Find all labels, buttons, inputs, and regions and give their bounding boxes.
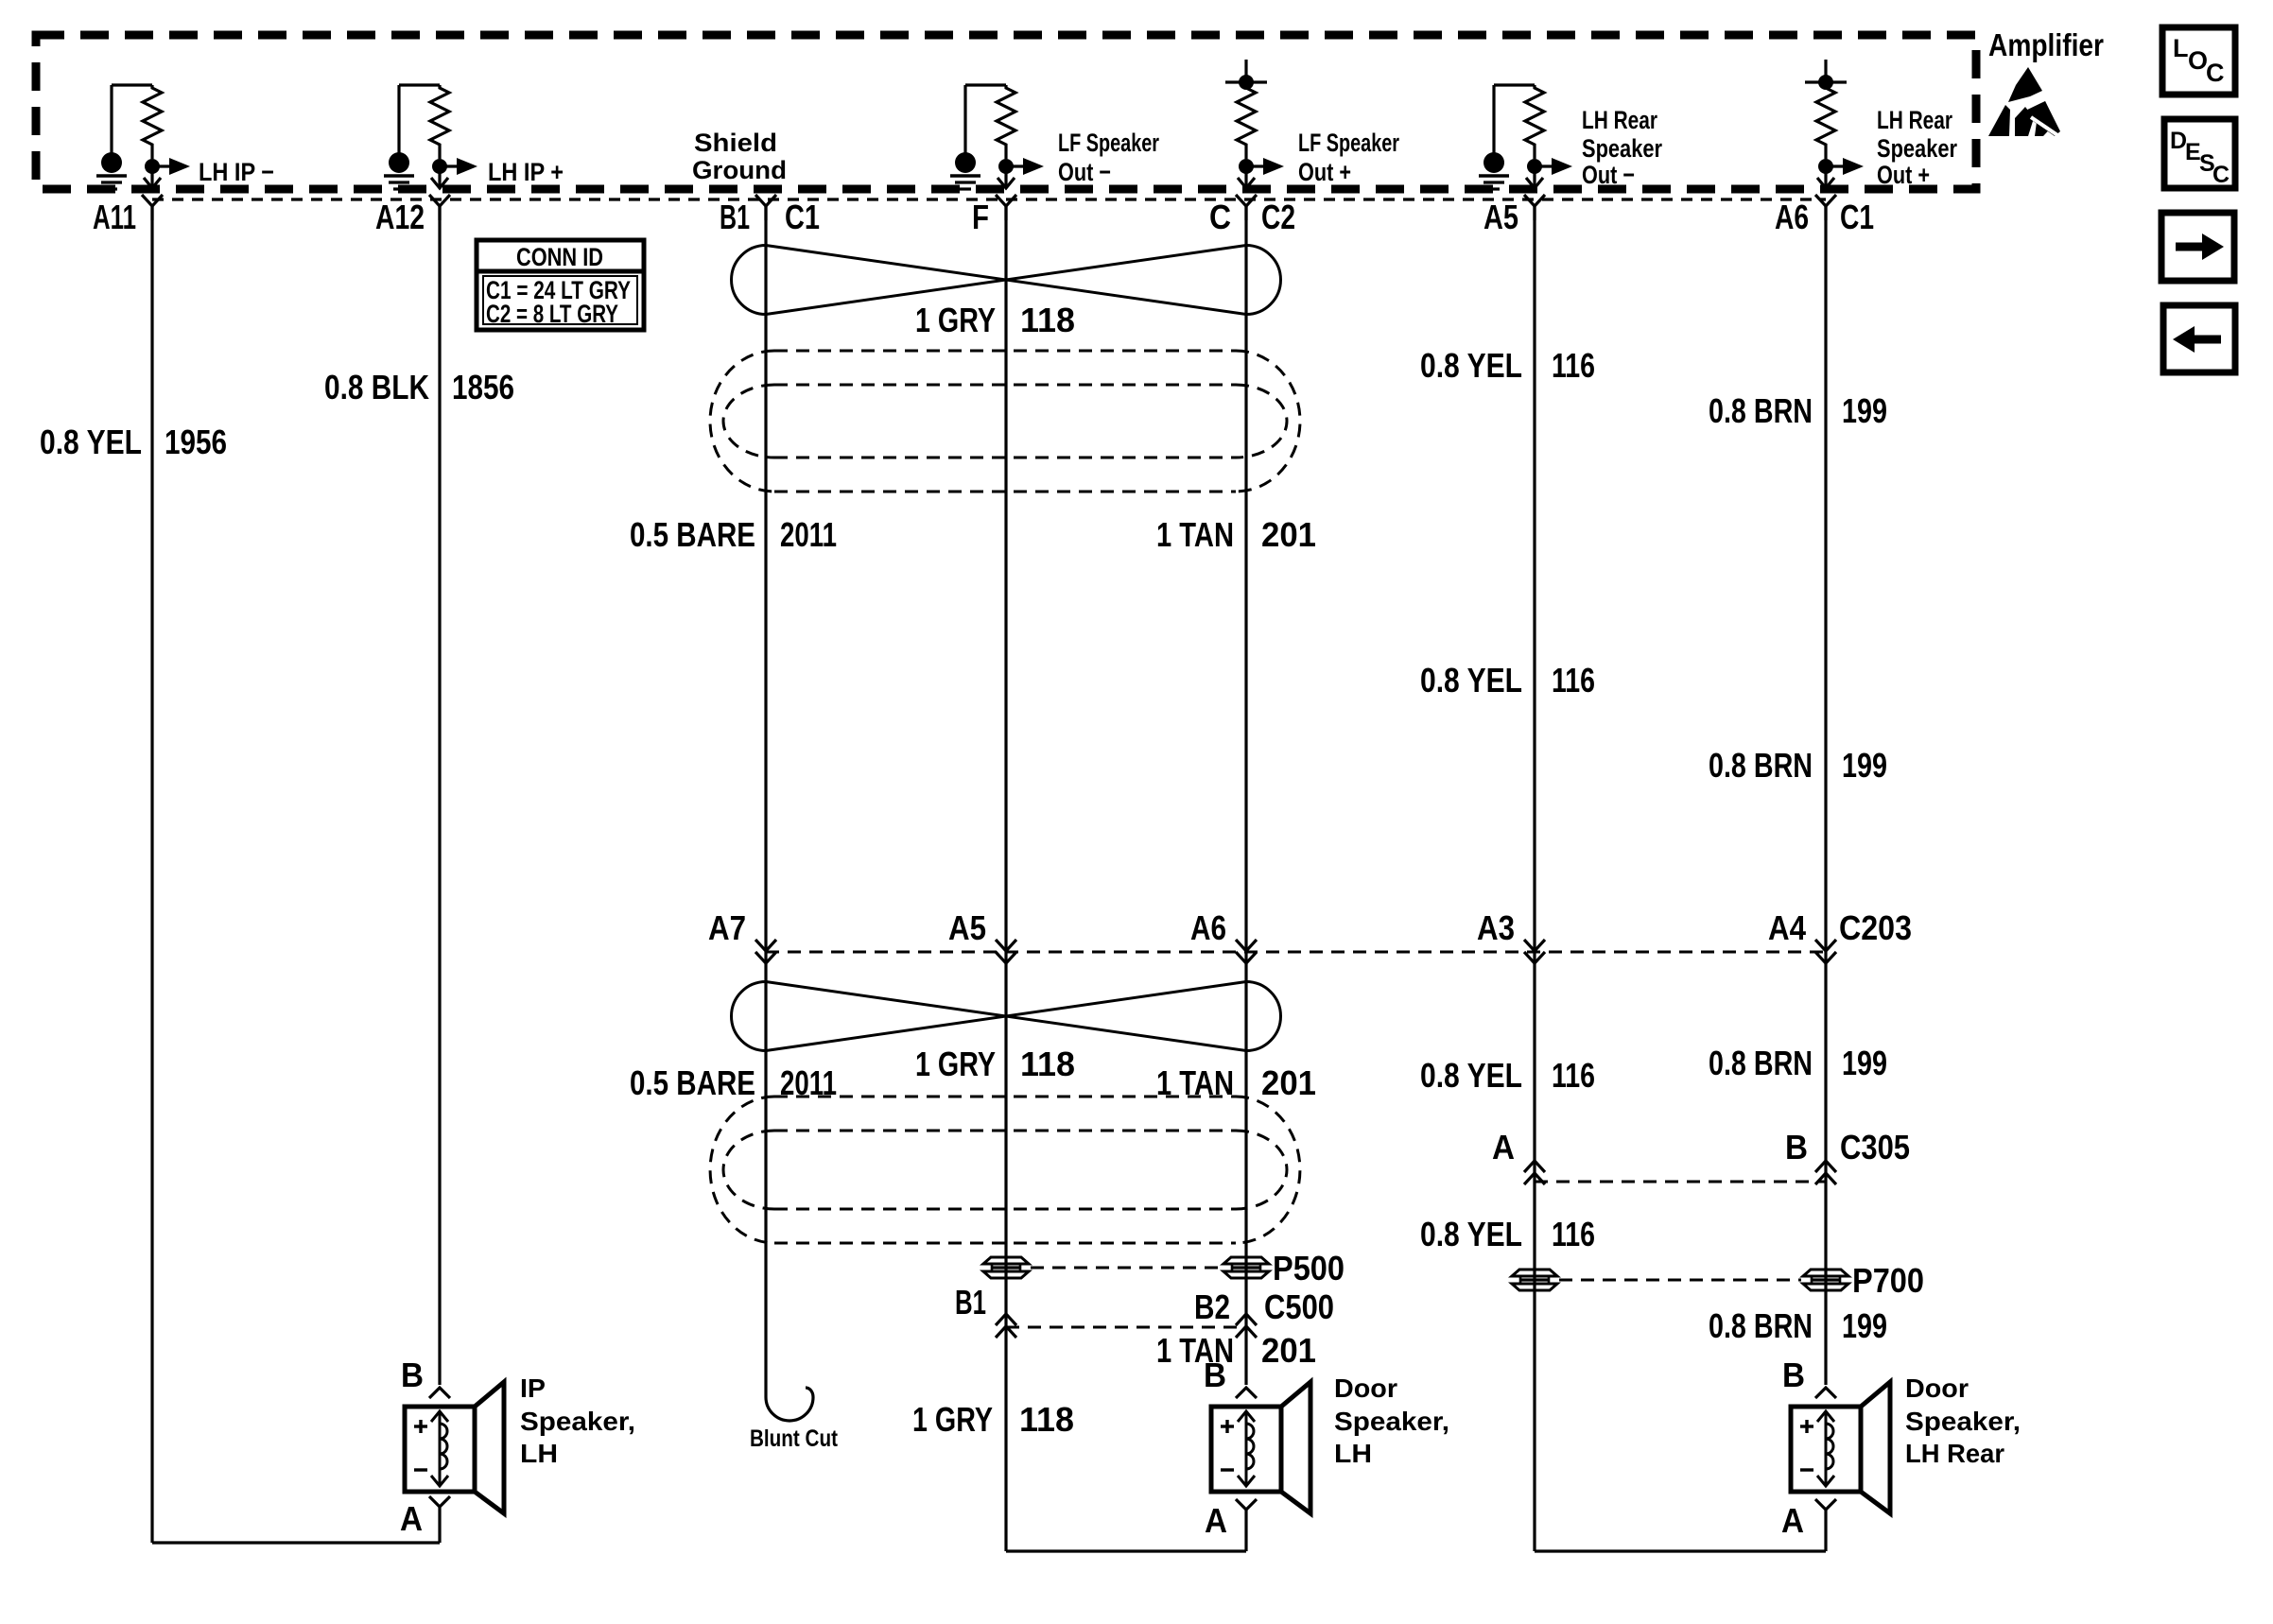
grommet P700 left half [1512, 1270, 1557, 1276]
label 0.5 BARE 2011 upper [630, 515, 837, 554]
svg-text:LH IP +: LH IP + [488, 158, 564, 186]
svg-text:LF Speaker: LF Speaker [1058, 129, 1159, 157]
svg-text:A5: A5 [948, 908, 986, 947]
label LH Rear Speaker Out + [1877, 106, 1957, 189]
svg-text:116: 116 [1552, 346, 1595, 385]
svg-text:LH: LH [1334, 1439, 1372, 1468]
wire C2 (1 TAN 201) vertical run [1244, 206, 1247, 1385]
svg-text:1 GRY: 1 GRY [915, 1045, 996, 1083]
svg-text:C2: C2 [1261, 198, 1295, 236]
svg-text:C203: C203 [1839, 908, 1912, 947]
forward arrow icon box [2161, 213, 2234, 281]
svg-text:Amplifier: Amplifier [1988, 27, 2104, 62]
svg-text:P500: P500 [1273, 1249, 1345, 1287]
pin A6/C1 terminal [1815, 195, 1836, 206]
svg-text:C: C [1209, 198, 1231, 236]
resistor LH IP - output with ground [96, 85, 190, 189]
shield cylinder upper [774, 350, 1236, 353]
svg-text:F: F [972, 198, 989, 236]
pin C/C2 terminal [1236, 195, 1257, 206]
svg-text:C: C [2206, 59, 2225, 87]
label 0.8 BLK 1856 [324, 368, 514, 406]
twisted pair symbol upper [732, 246, 766, 315]
svg-text:201: 201 [1261, 1331, 1316, 1370]
door speaker LH LS2 symbol [1211, 1407, 1281, 1492]
label 0.8 BRN 199 third [1709, 1044, 1887, 1082]
pin A12 terminal [429, 195, 450, 206]
svg-text:B1: B1 [955, 1283, 986, 1322]
connector C203 pin A5 chevrons [996, 940, 1016, 951]
svg-text:A11: A11 [93, 198, 136, 236]
connector C305 pin B chevrons [1815, 1161, 1836, 1172]
svg-text:0.8 BRN: 0.8 BRN [1709, 746, 1813, 785]
wire door speaker LH return run [1006, 1549, 1246, 1552]
label 1 GRY 118 upper [915, 301, 1075, 339]
svg-text:LH IP −: LH IP − [199, 158, 274, 186]
grommet P500 left half [983, 1257, 1029, 1264]
svg-text:0.8 BRN: 0.8 BRN [1709, 1044, 1813, 1082]
svg-text:LH: LH [520, 1439, 558, 1468]
wire A6 (0.8 BRN 199) vertical run [1824, 206, 1827, 1385]
svg-text:116: 116 [1552, 661, 1595, 700]
connector C1/C2 interface dotted line [152, 198, 1826, 200]
label Door Speaker LH [1334, 1373, 1449, 1468]
label 1 TAN 201 lower [1156, 1063, 1316, 1102]
svg-text:118: 118 [1020, 1045, 1075, 1083]
label 1 GRY 118 lower [915, 1045, 1075, 1083]
connector C203 pin A4 chevrons [1815, 940, 1836, 951]
door speaker LH Rear pin A terminal [1815, 1499, 1836, 1510]
connector C500 pin B2 chevrons [1236, 1314, 1257, 1325]
CONN ID table [477, 240, 644, 330]
svg-text:199: 199 [1842, 1306, 1887, 1345]
LOC icon box [2162, 27, 2235, 95]
svg-text:Ground: Ground [692, 156, 787, 184]
svg-text:Speaker,: Speaker, [1334, 1407, 1449, 1436]
DESC icon box [2164, 119, 2235, 188]
connector C305 dashed line [1535, 1181, 1826, 1183]
svg-text:Door: Door [1905, 1373, 1969, 1403]
svg-text:A: A [1781, 1501, 1804, 1540]
svg-text:A: A [1205, 1501, 1227, 1540]
svg-text:116: 116 [1552, 1215, 1595, 1253]
svg-text:0.8 BLK: 0.8 BLK [324, 368, 429, 406]
svg-text:0.8 YEL: 0.8 YEL [1420, 1056, 1522, 1095]
svg-text:L: L [2173, 34, 2189, 62]
wire A5 (0.8 YEL 116) vertical run [1533, 206, 1536, 1551]
svg-text:0.5 BARE: 0.5 BARE [630, 515, 755, 554]
svg-text:A5: A5 [1484, 198, 1518, 236]
svg-text:C: C [2212, 162, 2230, 188]
connector C203 dashed line [766, 951, 1826, 954]
wire door speaker LH Rear return run [1535, 1549, 1826, 1552]
svg-text:201: 201 [1261, 1063, 1316, 1102]
svg-text:P700: P700 [1852, 1261, 1924, 1300]
svg-text:Speaker: Speaker [1877, 134, 1957, 163]
door speaker LH pin A terminal [1236, 1499, 1257, 1510]
svg-text:0.8 YEL: 0.8 YEL [1420, 346, 1522, 385]
label 0.8 YEL 116 fourth [1420, 1215, 1595, 1253]
svg-text:C1: C1 [785, 198, 820, 236]
label LF Speaker Out - [1058, 129, 1159, 186]
svg-text:LH Rear: LH Rear [1877, 106, 1952, 134]
wire A11 (0.8 YEL 1956) vertical run [150, 206, 153, 1543]
svg-text:B: B [401, 1356, 424, 1394]
pin B1/C1 terminal [755, 195, 776, 206]
svg-text:0.8 BRN: 0.8 BRN [1709, 1306, 1813, 1345]
svg-text:B1: B1 [720, 198, 750, 236]
svg-text:Shield: Shield [694, 129, 777, 157]
svg-text:A: A [1492, 1128, 1515, 1166]
svg-text:118: 118 [1019, 1400, 1074, 1439]
connector C203 pin A7 chevrons [755, 940, 776, 951]
svg-text:0.5 BARE: 0.5 BARE [630, 1063, 755, 1102]
svg-text:O: O [2188, 46, 2208, 75]
label 0.8 BRN 199 first [1709, 391, 1887, 430]
twisted pair symbol lower [732, 982, 767, 1051]
pin A5 terminal [1524, 195, 1545, 206]
resistor LH Rear Speaker Out - with ground [1479, 85, 1572, 189]
svg-text:201: 201 [1261, 515, 1316, 554]
resistor LH Rear Speaker Out + with node stub [1805, 60, 1864, 188]
svg-text:C500: C500 [1264, 1287, 1334, 1326]
door speaker LH Rear LS3 symbol [1791, 1407, 1861, 1492]
svg-text:1 TAN: 1 TAN [1156, 515, 1234, 554]
svg-text:B: B [1204, 1356, 1226, 1394]
svg-text:118: 118 [1020, 301, 1075, 339]
svg-text:1956: 1956 [165, 423, 227, 461]
svg-text:0.8 YEL: 0.8 YEL [40, 423, 142, 461]
svg-text:Speaker: Speaker [1582, 134, 1662, 163]
svg-text:Blunt Cut: Blunt Cut [750, 1425, 839, 1452]
IP speaker pin B chevron [429, 1388, 450, 1398]
svg-text:Out −: Out − [1058, 158, 1111, 186]
grommet P700 right half [1803, 1270, 1848, 1276]
svg-text:A6: A6 [1190, 908, 1226, 947]
resistor LF Speaker Out + with node stub [1225, 60, 1284, 188]
svg-text:Speaker,: Speaker, [520, 1407, 635, 1436]
svg-text:A: A [400, 1499, 423, 1538]
svg-text:Out +: Out + [1877, 161, 1930, 189]
label 1 GRY 118 at door [912, 1400, 1074, 1439]
svg-text:199: 199 [1842, 1044, 1887, 1082]
svg-text:1856: 1856 [452, 368, 514, 406]
label Door Speaker LH Rear [1905, 1373, 2021, 1468]
label 0.5 BARE 2011 lower [630, 1063, 837, 1102]
connector C203 pin A3 chevrons [1524, 940, 1545, 951]
svg-text:CONN ID: CONN ID [516, 243, 603, 271]
label 0.8 YEL 116 third [1420, 1056, 1595, 1095]
svg-text:1 GRY: 1 GRY [912, 1400, 993, 1439]
svg-text:A4: A4 [1768, 908, 1806, 947]
svg-text:116: 116 [1552, 1056, 1595, 1095]
svg-text:Speaker,: Speaker, [1905, 1407, 2021, 1436]
label 0.8 BRN 199 second [1709, 746, 1887, 785]
svg-text:Out −: Out − [1582, 161, 1635, 189]
pin A11 terminal [142, 195, 163, 206]
pin F terminal [996, 195, 1016, 206]
label 0.8 YEL 116 first [1420, 346, 1595, 385]
svg-text:IP: IP [520, 1373, 546, 1403]
ESD sensitive device symbol [1988, 67, 2063, 139]
wire A12 (0.8 BLK 1856) vertical run [438, 206, 441, 1385]
door speaker LH Rear pin B chevron [1815, 1388, 1836, 1398]
svg-text:LF Speaker: LF Speaker [1298, 129, 1399, 157]
label 1 TAN 201 upper [1156, 515, 1316, 554]
svg-text:C305: C305 [1840, 1128, 1910, 1166]
svg-text:0.8 BRN: 0.8 BRN [1709, 391, 1813, 430]
amplifier U1 dashed outline box [36, 35, 1976, 189]
svg-text:A6: A6 [1775, 198, 1809, 236]
grommet P500 dashed link [1031, 1267, 1222, 1270]
wire B1 shield drain vertical run [764, 206, 767, 1397]
IP speaker pin A terminal [429, 1496, 450, 1507]
label Shield Ground [692, 129, 787, 184]
resistor LH IP + output with ground [384, 85, 477, 189]
connector C203 pin A6 chevrons [1236, 940, 1257, 951]
grommet P500 right half [1223, 1257, 1269, 1264]
svg-text:A12: A12 [375, 198, 425, 236]
svg-text:A3: A3 [1477, 908, 1515, 947]
label 0.8 YEL 116 second [1420, 661, 1595, 700]
svg-text:1 GRY: 1 GRY [915, 301, 996, 339]
blunt cut hook on shield drain wire [766, 1388, 813, 1421]
shield cylinder lower [774, 1096, 1236, 1098]
back arrow icon box [2163, 305, 2235, 372]
door speaker LH pin B chevron [1236, 1388, 1257, 1398]
wire F (1 GRY 118) vertical run [1004, 206, 1007, 1551]
svg-text:A7: A7 [708, 908, 746, 947]
grommet P700 dashed link [1559, 1279, 1801, 1282]
wire IP speaker return run [152, 1541, 440, 1544]
svg-text:199: 199 [1842, 746, 1887, 785]
svg-text:2011: 2011 [780, 515, 837, 554]
svg-text:B: B [1785, 1128, 1808, 1166]
svg-text:Door: Door [1334, 1373, 1397, 1403]
svg-text:LH Rear: LH Rear [1905, 1439, 2004, 1468]
connector C305 pin A chevrons [1524, 1161, 1545, 1172]
svg-text:LH Rear: LH Rear [1582, 106, 1657, 134]
connector C500 dashed line [1006, 1326, 1246, 1329]
IP speaker LS1 symbol [405, 1407, 475, 1492]
label 1 TAN 201 at door [1156, 1331, 1316, 1370]
label 0.8 YEL 1956 [40, 423, 227, 461]
resistor LF Speaker Out - with ground [950, 85, 1044, 189]
svg-text:Out +: Out + [1298, 158, 1351, 186]
label 0.8 BRN 199 fourth [1709, 1306, 1887, 1345]
svg-text:B2: B2 [1194, 1287, 1230, 1326]
svg-text:C2 = 8 LT GRY: C2 = 8 LT GRY [486, 300, 618, 328]
svg-text:B: B [1782, 1356, 1805, 1394]
svg-text:C1: C1 [1840, 198, 1874, 236]
label LH Rear Speaker Out - [1582, 106, 1662, 189]
svg-text:0.8 YEL: 0.8 YEL [1420, 1215, 1522, 1253]
svg-text:0.8 YEL: 0.8 YEL [1420, 661, 1522, 700]
svg-text:199: 199 [1842, 391, 1887, 430]
label IP Speaker LH [520, 1373, 635, 1468]
label LF Speaker Out + [1298, 129, 1399, 186]
connector C500 pin B1 chevrons [996, 1314, 1016, 1325]
